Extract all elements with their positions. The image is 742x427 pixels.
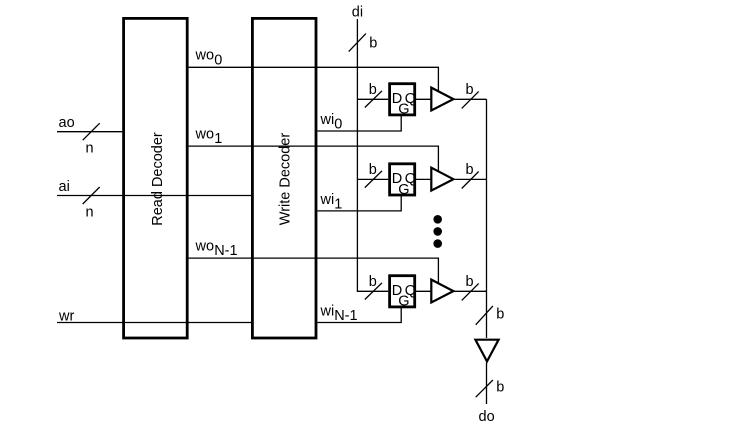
bus slash do upper (b bits) [476,306,493,325]
tri-state buffer U8 [431,280,453,303]
bus slash b (buffer 2 output) [462,172,479,189]
wire di branch to latch 2 D [357,178,388,180]
wire latch 2 Q to buffer [415,178,432,180]
svg-text:wr: wr [58,309,74,325]
wire latch 1 Q to buffer [415,98,432,100]
svg-text:ai: ai [59,179,70,195]
node wi1 label [320,192,343,213]
node wiN-1 label [320,303,358,324]
svg-text:b: b [369,82,377,98]
svg-text:b: b [496,307,504,323]
node woN-1 label [195,238,238,259]
svg-text:b: b [466,82,474,98]
svg-text:b: b [369,274,377,290]
svg-text:wi: wi [320,192,335,208]
bus slash di (b bits) [349,34,366,52]
wire di branch to latch 1 D [357,98,388,100]
output buffer U9 [475,340,498,362]
svg-text:N-1: N-1 [334,308,357,324]
svg-text:b: b [369,36,377,52]
bus slash do lower (b bits) [476,380,493,397]
latch U5 (D-G latch 3) [390,276,416,310]
wire wiN-1 (write enable line 3) [317,307,401,323]
wire wr [57,322,253,324]
wire wo0 (read word line 1) [189,67,439,91]
bus slash ai (n bits) [83,187,100,204]
bus slash ao (n bits) [83,123,100,140]
svg-text:G: G [398,294,409,310]
bus slash b (latch 2 input) [365,171,382,188]
tri-state buffer U7 [431,168,453,191]
wire ao [57,131,124,133]
bus slash b (latch 1 input) [365,91,382,108]
svg-text:0: 0 [334,117,342,133]
bus slash b (buffer 1 output) [462,91,479,108]
wire buffer 2 output to do bus [453,178,486,180]
svg-text:n: n [86,205,94,221]
svg-text:b: b [466,162,474,178]
svg-text:di: di [352,4,363,20]
wire latch 3 Q to buffer [415,290,432,292]
svg-text:N-1: N-1 [214,243,237,259]
ellipsis dots (repeated cells) [433,215,442,248]
svg-text:wi: wi [320,303,335,319]
svg-text:1: 1 [334,197,342,213]
wire ai [57,195,253,197]
svg-text:b: b [369,162,377,178]
Write Decoder U2 [252,18,316,338]
svg-text:b: b [466,274,474,290]
svg-text:Read Decoder: Read Decoder [150,132,166,226]
node wi0 label [320,112,343,133]
svg-text:wo: wo [195,238,215,254]
wire wi1 (write enable line 2) [317,195,401,211]
node wo0 label [195,48,223,69]
wire wi0 (write enable line 1) [317,115,401,131]
wire buffer 3 output to do bus [453,290,486,292]
bus slash b (buffer 3 output) [462,283,479,300]
svg-text:wo: wo [195,126,215,142]
wire woN-1 (read word line 3) [189,258,439,283]
svg-text:1: 1 [214,131,222,147]
wire do output [486,363,488,405]
node wo1 label [195,126,223,147]
svg-text:do: do [479,409,495,425]
wire buffer 1 output to do bus [453,98,486,100]
latch U3 (D-G latch 1) [390,84,416,118]
wire wo1 (read word line 2) [189,146,439,171]
latch U4 (D-G latch 2) [390,164,416,198]
svg-text:wo: wo [195,48,215,64]
wire di bus [357,19,388,291]
svg-text:ao: ao [59,115,75,131]
Read Decoder U1 [124,18,188,338]
svg-text:G: G [398,182,409,198]
svg-text:wi: wi [320,112,335,128]
bus slash b (latch 3 input) [365,283,382,300]
svg-text:0: 0 [214,52,222,68]
svg-text:G: G [398,102,409,118]
tri-state buffer U6 [431,88,453,111]
svg-text:n: n [86,141,94,157]
wire do bus [486,99,488,338]
svg-text:b: b [496,380,504,396]
